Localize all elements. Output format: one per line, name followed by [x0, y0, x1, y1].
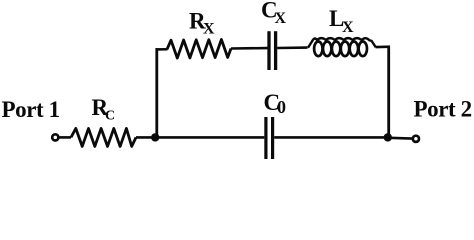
wire top left corner to Rx — [156, 48, 168, 51]
svg-text:0: 0 — [277, 97, 286, 117]
inductor Lx loop 4 — [341, 42, 349, 57]
label Rc — [92, 95, 116, 124]
node B junction dot — [384, 133, 392, 141]
capacitor C0 left plate — [264, 117, 267, 159]
wire node B to terminal 2 — [389, 137, 412, 140]
capacitor Cx left plate — [267, 31, 270, 70]
wire terminal1 to Rc — [59, 136, 71, 139]
inductor Lx loop 5 — [350, 42, 358, 57]
inductor Lx loop 1 — [314, 42, 322, 57]
svg-text:X: X — [203, 20, 215, 37]
resistor Rx — [167, 40, 231, 59]
port 2 terminal — [413, 136, 419, 142]
svg-text:X: X — [342, 19, 354, 36]
inductor Lx loop 2 — [323, 42, 331, 57]
label Cx — [261, 0, 287, 27]
svg-text:C: C — [105, 109, 115, 124]
port 1 terminal — [52, 134, 58, 140]
inductor Lx loop 3 — [332, 42, 340, 57]
wire node A to C0 — [155, 136, 264, 139]
svg-text:Port 2: Port 2 — [414, 97, 472, 122]
wire Cx to Lx — [277, 46, 307, 49]
label Rx — [189, 8, 215, 37]
label C0 — [264, 90, 287, 117]
wire C0 to node B — [274, 136, 389, 139]
svg-text:Port 1: Port 1 — [2, 97, 60, 122]
wire right vertical — [387, 47, 390, 138]
label Lx — [329, 6, 354, 36]
node A junction dot — [151, 133, 159, 141]
wire Rc to node A — [136, 136, 156, 139]
capacitor Cx right plate — [274, 31, 277, 70]
wire node A up — [155, 48, 158, 137]
resistor Rc — [71, 128, 136, 146]
wire Lx to top right corner — [376, 45, 391, 48]
inductor Lx top humps — [308, 38, 376, 48]
wire Rx to Cx — [231, 47, 268, 50]
svg-text:X: X — [275, 10, 287, 27]
capacitor C0 right plate — [271, 117, 274, 159]
inductor Lx loop 6 — [359, 42, 367, 57]
